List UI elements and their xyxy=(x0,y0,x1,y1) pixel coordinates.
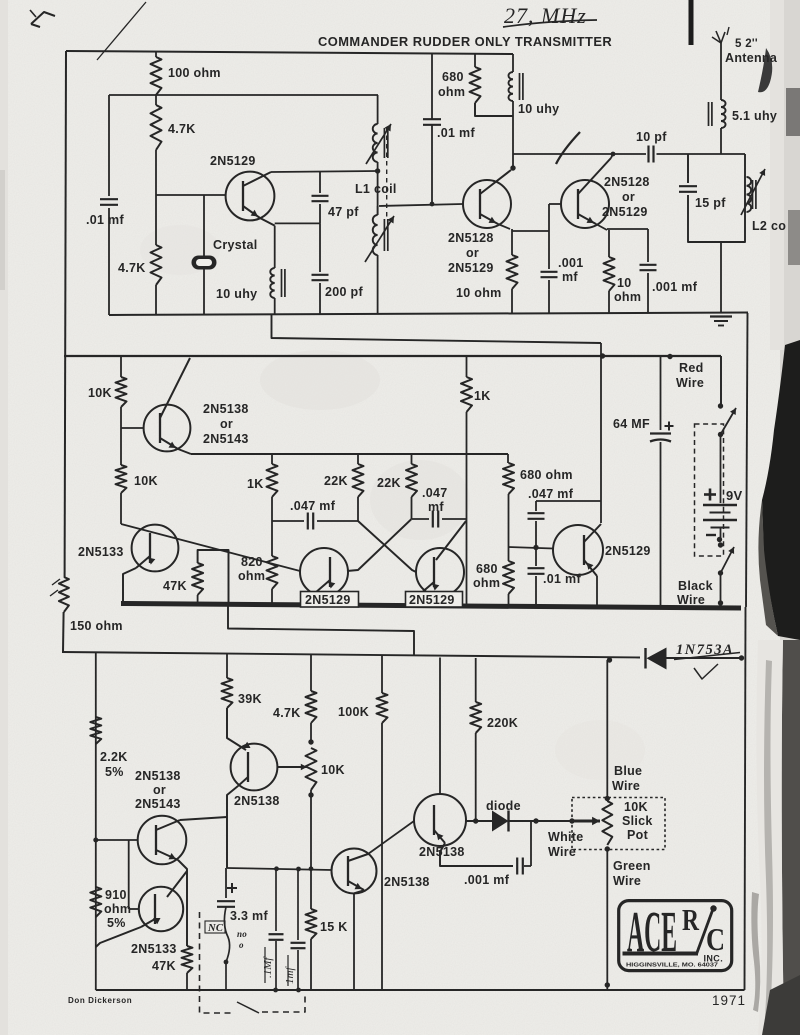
label 15 K xyxy=(320,920,348,934)
wire left page border (lower) xyxy=(62,612,65,652)
node L4-collector junction xyxy=(510,165,515,170)
wire Q3 collector riser xyxy=(611,154,613,158)
svg-text:Wire: Wire xyxy=(612,779,640,793)
svg-text:Wire: Wire xyxy=(676,376,704,390)
wire right multivib column xyxy=(466,454,468,604)
svg-text:Red: Red xyxy=(679,361,704,375)
wire top border xyxy=(66,51,513,54)
resistor R15 1K xyxy=(461,356,472,454)
node rail junction b xyxy=(296,988,301,993)
label Crystal xyxy=(213,238,257,252)
label 10 ohm (R5) xyxy=(456,286,502,300)
svg-text:or: or xyxy=(153,783,166,797)
transistor Q5 2N5133 xyxy=(123,525,178,603)
svg-text:NC: NC xyxy=(207,923,224,934)
logo ACE text xyxy=(627,899,677,964)
resistor R2 4.7K xyxy=(151,95,162,195)
svg-text:1971: 1971 xyxy=(712,993,746,1008)
wire oscillator bottom rail xyxy=(109,313,748,316)
label Blue Wire xyxy=(612,764,642,793)
capacitor C11 .047 mf xyxy=(528,501,545,547)
svg-text:10: 10 xyxy=(617,276,632,290)
svg-text:.1Mf: .1Mf xyxy=(262,956,274,978)
label 52'' Antenna xyxy=(725,38,778,65)
label 1N753A (handwritten) xyxy=(674,642,740,660)
resistor R17 680 ohm xyxy=(503,547,514,606)
label 2N5128 or 2N5129 (Q3) xyxy=(602,175,650,219)
svg-text:100 ohm: 100 ohm xyxy=(168,66,221,80)
svg-text:39K: 39K xyxy=(238,692,262,706)
svg-text:680: 680 xyxy=(476,562,498,576)
svg-text:200 pf: 200 pf xyxy=(325,285,363,299)
label 3.3 mf xyxy=(230,909,268,923)
wire keying transistor riser xyxy=(600,343,602,523)
svg-text:ohm: ohm xyxy=(614,290,641,304)
label .001 mf (C17) xyxy=(464,873,510,887)
resistor R16 680 ohm xyxy=(503,454,514,547)
label .1Mf (rotated handwritten) xyxy=(262,947,274,983)
label White Wire xyxy=(548,830,584,859)
capacitor C17 .001 mf xyxy=(517,821,531,875)
svg-text:1K: 1K xyxy=(247,477,264,491)
svg-text:5.1 uhy: 5.1 uhy xyxy=(732,109,777,123)
label 2N5128 or 2N5129 (Q2) xyxy=(448,231,494,275)
wire trim dashed box xyxy=(200,912,306,1013)
inductor L1b (variable, lower) xyxy=(365,206,394,313)
resistor R24 910 ohm 5% xyxy=(90,887,101,917)
svg-text:.01 mf: .01 mf xyxy=(437,126,475,140)
svg-text:2N5138: 2N5138 xyxy=(203,402,249,416)
label 680 ohm (R4) xyxy=(438,70,465,99)
label .01 mf xyxy=(86,213,124,227)
svg-text:.001: .001 xyxy=(558,256,584,270)
wire left page border (upper) xyxy=(65,51,66,577)
resistor R1 100 ohm xyxy=(151,51,162,95)
wire RF amp base xyxy=(379,204,463,206)
resistor R7 10K xyxy=(116,356,127,428)
label .047 mf (C10) xyxy=(422,486,448,514)
svg-text:2N5128: 2N5128 xyxy=(604,175,650,189)
inductor L5 5.1 uhy xyxy=(709,100,726,154)
capacitor C2 47 pf xyxy=(312,171,329,223)
transistor Q1 2N5129 xyxy=(226,172,275,226)
capacitor C8 15 pf xyxy=(679,186,697,192)
svg-text:2N5138: 2N5138 xyxy=(234,794,280,808)
svg-text:10 uhy: 10 uhy xyxy=(518,102,559,116)
node diode output junction xyxy=(533,818,538,823)
label box 2N5129 (Q6) xyxy=(301,592,359,608)
svg-text:.001 mf: .001 mf xyxy=(464,873,510,887)
wire Q8 base bus xyxy=(509,547,554,549)
label 47 pf xyxy=(328,205,359,219)
svg-text:150 ohm: 150 ohm xyxy=(70,619,123,633)
label NC (handwritten) xyxy=(205,921,225,934)
node base-cap junction xyxy=(533,545,538,550)
svg-text:o: o xyxy=(239,940,244,950)
svg-text:2N5138: 2N5138 xyxy=(384,875,430,889)
resistor R6 10 ohm xyxy=(604,230,615,313)
label 2N5138 (Q9) xyxy=(234,794,280,808)
label 910 ohm 5% xyxy=(104,888,131,930)
label Red Wire xyxy=(676,361,704,390)
node collector-tank junction xyxy=(375,168,380,173)
logo address text xyxy=(626,963,718,969)
label 10 uhy (L3) xyxy=(216,287,257,301)
label 22K (R13) xyxy=(377,476,401,490)
wire Q1 emitter to caps xyxy=(275,222,320,224)
transistor Q6 2N5129 xyxy=(300,548,348,604)
diode D2 xyxy=(492,811,536,832)
label 1mf (rotated handwritten) xyxy=(284,955,296,986)
capacitor C15 1 mf (handwritten) xyxy=(269,866,284,990)
svg-text:2N5143: 2N5143 xyxy=(203,432,249,446)
label 2.2K 5% xyxy=(100,750,128,779)
label minus (BT1) xyxy=(706,534,716,536)
label .01 mf (C4) xyxy=(437,126,475,140)
svg-text:2N5138: 2N5138 xyxy=(135,769,181,783)
svg-text:ohm: ohm xyxy=(473,576,500,590)
label 47K (R25) xyxy=(152,959,176,973)
svg-text:2N5129: 2N5129 xyxy=(210,154,256,168)
label 150 ohm xyxy=(70,619,123,633)
label 2N5129 (Q8) xyxy=(605,544,651,558)
svg-text:10K: 10K xyxy=(624,800,648,814)
pen slash mark (RF stage) xyxy=(556,132,580,164)
label 200 pf xyxy=(325,285,363,299)
svg-text:HIGGINSVILLE, MO. 64037: HIGGINSVILLE, MO. 64037 xyxy=(626,963,718,969)
svg-text:2N5133: 2N5133 xyxy=(78,545,124,559)
label plus (BT1) xyxy=(704,489,716,501)
wire crossover A xyxy=(358,521,416,572)
label 2N5138 (Q12) xyxy=(384,875,430,889)
transistor Q12 2N5138 xyxy=(332,821,415,990)
transistor Q2 2N5128/2N5129 xyxy=(463,170,511,229)
label 10 uhy (L4) xyxy=(518,102,559,116)
wire white wire arrow xyxy=(536,817,600,825)
node pot bottom junction xyxy=(309,866,314,871)
capacitor C1 .01 mf xyxy=(100,199,118,205)
label L2 co xyxy=(752,219,786,233)
potentiometer R22 10K xyxy=(306,739,317,868)
svg-text:10 uhy: 10 uhy xyxy=(216,287,257,301)
resistor R8 10K xyxy=(116,428,127,524)
wire Q4 base xyxy=(121,427,144,429)
transistor Q9 2N5138 xyxy=(227,744,307,868)
resistor R12 22K xyxy=(353,454,364,521)
svg-text:.047: .047 xyxy=(422,486,448,500)
svg-text:5%: 5% xyxy=(107,916,126,930)
svg-text:5 2'': 5 2'' xyxy=(735,38,758,50)
label 10K (R7) xyxy=(88,386,112,400)
svg-text:Green: Green xyxy=(613,859,651,873)
diode D1 1N753A xyxy=(646,648,742,670)
wire step-down link xyxy=(228,606,414,655)
capacitor C16 1 mf (handwritten) xyxy=(291,867,306,990)
switch S1 (red wire) xyxy=(718,403,736,437)
wire Q1 collector xyxy=(271,171,378,172)
resistor R14 150 ohm (in left border) xyxy=(50,577,69,612)
resistor R25 47K xyxy=(182,946,193,990)
svg-text:64 MF: 64 MF xyxy=(613,417,650,431)
label 2N5138 (Q13) xyxy=(419,845,465,859)
svg-text:22K: 22K xyxy=(324,474,348,488)
label 220K xyxy=(487,716,518,730)
transistor Q13 2N5138 xyxy=(414,658,513,867)
label 820 ohm (R11) xyxy=(238,555,265,583)
label 680 ohm (R17) xyxy=(473,562,500,590)
svg-text:.01 mf: .01 mf xyxy=(86,213,124,227)
svg-text:2N5138: 2N5138 xyxy=(419,845,465,859)
transistor Q11 2N5133 xyxy=(96,840,187,947)
label 1971 xyxy=(712,993,746,1008)
svg-text:Don Dickerson: Don Dickerson xyxy=(68,996,132,1005)
svg-text:.001 mf: .001 mf xyxy=(652,280,698,294)
wire middle bottom rail xyxy=(121,604,741,609)
node Q3 collector-rail junction xyxy=(611,152,616,157)
svg-text:47 pf: 47 pf xyxy=(328,205,359,219)
label 10 ohm (R6) xyxy=(614,276,641,304)
svg-text:2N5129: 2N5129 xyxy=(305,593,351,607)
svg-text:2N5129: 2N5129 xyxy=(602,205,648,219)
svg-text:10 ohm: 10 ohm xyxy=(456,286,502,300)
wire crossover B xyxy=(347,519,412,571)
transistor Q7 2N5129 xyxy=(416,521,466,604)
resistor R5 10 ohm xyxy=(507,229,518,313)
label 2N5129 (Q1) xyxy=(210,154,256,168)
svg-text:mf: mf xyxy=(562,270,578,284)
wire battery dashed enclosure xyxy=(695,424,724,556)
transistor Q10 2N5138/2N5143 xyxy=(96,816,227,946)
wire keying collector link xyxy=(536,500,601,502)
node supply-pot junction xyxy=(607,657,612,662)
svg-text:R: R xyxy=(682,902,699,937)
antenna xyxy=(712,27,729,100)
label plus (C13) xyxy=(665,422,674,431)
resistor R4 680 ohm xyxy=(470,54,514,116)
node rail junction a xyxy=(273,988,278,993)
node Q10 base junction xyxy=(93,838,98,843)
resistor R10 1K xyxy=(267,454,278,521)
label 10K Slick Pot xyxy=(622,800,653,842)
transistor Q4 2N5138/2N5143 xyxy=(144,358,191,454)
svg-text:ohm: ohm xyxy=(238,569,265,583)
battery BT1 9V xyxy=(703,505,737,542)
wire bottom rail xyxy=(96,989,745,991)
wire Q2 emitter link xyxy=(512,230,549,232)
label 22K (R12) xyxy=(324,474,348,488)
capacitor C9 .047 mf xyxy=(272,513,358,530)
wire middle supply rail xyxy=(64,355,721,357)
svg-text:1mf: 1mf xyxy=(284,966,296,984)
node pot bottom rail junction xyxy=(605,982,610,987)
transistor Q8 2N5129 xyxy=(553,524,603,606)
wire Q1 base xyxy=(156,194,226,196)
svg-text:4.7K: 4.7K xyxy=(168,122,196,136)
label 10K (R8) xyxy=(134,474,158,488)
wire RF rail xyxy=(513,153,745,155)
svg-text:47K: 47K xyxy=(152,959,176,973)
wire oscillator top rail xyxy=(109,94,378,96)
wire gang dashed link xyxy=(386,127,388,218)
label 2N5138 or 2N5143 (Q4) xyxy=(203,402,249,446)
node rail junction (red wire) xyxy=(667,354,672,359)
wire right page border xyxy=(745,313,748,990)
ground xyxy=(710,317,732,326)
label Black Wire xyxy=(677,579,713,607)
label title xyxy=(318,34,612,49)
wire switch to battery xyxy=(720,435,722,504)
svg-text:C: C xyxy=(706,921,725,957)
svg-text:2N5128: 2N5128 xyxy=(448,231,494,245)
capacitor C7 10 pf xyxy=(649,146,654,163)
svg-text:Slick: Slick xyxy=(622,814,653,828)
wire Q3 base xyxy=(549,204,561,231)
svg-text:2N5129: 2N5129 xyxy=(409,593,455,607)
label 10K (R22) xyxy=(321,763,345,777)
svg-text:47K: 47K xyxy=(163,579,187,593)
wire emitter bus xyxy=(227,868,332,870)
label Don Dickerson xyxy=(68,996,132,1005)
wire step link from oscillator xyxy=(272,315,602,343)
svg-text:22K: 22K xyxy=(377,476,401,490)
transistor Q3 2N5128/2N5129 xyxy=(561,158,611,230)
pen scribble top-left xyxy=(30,10,55,27)
potentiometer R27 10K slick pot xyxy=(602,796,612,852)
label 15 pf xyxy=(695,196,726,210)
label .047 mf (C11) xyxy=(528,487,574,501)
svg-text:820: 820 xyxy=(241,555,263,569)
label 2N5133 (Q5) xyxy=(78,545,124,559)
svg-text:COMMANDER RUDDER ONLY TRANSMIT: COMMANDER RUDDER ONLY TRANSMITTER xyxy=(318,34,612,49)
capacitor C14 3.3 mf (electrolytic) xyxy=(217,868,235,990)
label no (handwritten) xyxy=(237,929,247,950)
label 10 pf xyxy=(636,130,667,144)
label box 2N5129 (Q7) xyxy=(406,592,463,608)
label 100K xyxy=(338,705,369,719)
svg-text:diode: diode xyxy=(486,799,521,813)
node 220K junction xyxy=(473,818,478,823)
label 100 ohm xyxy=(168,66,221,80)
wire bottom-left vertical xyxy=(95,653,97,990)
resistor R11 820 ohm xyxy=(267,521,278,604)
wire 2N5133 base diagonal xyxy=(121,524,300,571)
label 64 MF xyxy=(613,417,650,431)
svg-text:Wire: Wire xyxy=(613,874,641,888)
svg-text:White: White xyxy=(548,830,584,844)
wire pot column xyxy=(606,660,608,990)
label L1 coil xyxy=(355,182,397,196)
svg-text:9V: 9V xyxy=(726,488,743,503)
resistor R18 2.2K 5% xyxy=(90,717,101,744)
label 47K (R9) xyxy=(163,579,187,593)
svg-text:mf: mf xyxy=(428,500,444,514)
label .001 mf (C5) xyxy=(558,256,584,284)
wire antenna tank box xyxy=(688,154,745,242)
label 4.7K xyxy=(168,122,196,136)
svg-text:15 pf: 15 pf xyxy=(695,196,726,210)
svg-text:910: 910 xyxy=(105,888,127,902)
svg-text:4.7K: 4.7K xyxy=(273,706,301,720)
svg-text:2N5133: 2N5133 xyxy=(131,942,177,956)
label check mark xyxy=(694,664,718,679)
svg-text:4.7K: 4.7K xyxy=(118,261,146,275)
inductor L4 10 uhy xyxy=(508,54,522,168)
resistor R23 220K xyxy=(470,658,481,821)
label 9V xyxy=(726,488,743,503)
resistor R19 39K xyxy=(222,654,251,750)
label 1K (R15) xyxy=(474,389,491,403)
wire diode feed xyxy=(466,820,492,822)
svg-text:10K: 10K xyxy=(134,474,158,488)
capacitor C10 .047 mf xyxy=(412,511,467,528)
label .047 mf (C9) xyxy=(290,499,336,513)
svg-text:2N5129: 2N5129 xyxy=(605,544,651,558)
wire battery column top xyxy=(720,356,722,406)
resistor R26 15K xyxy=(306,868,317,990)
svg-text:15 K: 15 K xyxy=(320,920,348,934)
label 4.7K (R20) xyxy=(273,706,301,720)
node base-.01 junction xyxy=(430,202,435,207)
logo ACE R/C box xyxy=(619,901,732,971)
label 39K (R19) xyxy=(238,692,262,706)
label diode xyxy=(486,799,521,813)
label .01 mf (C12) xyxy=(543,572,581,586)
svg-text:Pot: Pot xyxy=(627,828,649,842)
wire supply line (left) xyxy=(62,652,640,658)
resistor R13 22K xyxy=(406,454,417,519)
svg-text:or: or xyxy=(466,246,479,260)
switch S2 (black wire) xyxy=(718,542,734,605)
svg-text:ohm: ohm xyxy=(104,902,131,916)
node supply-right junction xyxy=(739,655,744,660)
resistor R3 4.7K xyxy=(151,195,162,315)
logo underline bar xyxy=(623,952,699,956)
svg-text:Crystal: Crystal xyxy=(213,238,257,252)
capacitor C12 .01 mf xyxy=(528,548,545,607)
svg-text:27, MHz: 27, MHz xyxy=(504,3,587,28)
inductor L1 (variable, upper) xyxy=(366,95,391,206)
inductor L3 10 uhy xyxy=(270,226,285,315)
resistor R21 100K xyxy=(377,655,388,990)
label 4.7K (R3) xyxy=(118,261,146,275)
svg-text:5%: 5% xyxy=(105,765,124,779)
resistor R9 47K xyxy=(192,550,228,604)
svg-text:Antenna: Antenna xyxy=(725,51,778,65)
label 2N5138 or 2N5143 (Q10) xyxy=(135,769,181,811)
label 1K (R10) xyxy=(247,477,264,491)
pen diagonal line xyxy=(97,2,146,60)
capacitor C3 200 pf xyxy=(312,223,329,315)
wire pot slider box (dashed) xyxy=(572,798,665,850)
svg-text:680: 680 xyxy=(442,70,464,84)
capacitor C6 .001 mf xyxy=(607,229,657,313)
label 27 MHz (handwritten) xyxy=(503,3,597,28)
svg-text:Black: Black xyxy=(678,579,713,593)
svg-text:Wire: Wire xyxy=(677,593,705,607)
svg-text:2.2K: 2.2K xyxy=(100,750,128,764)
wire left oscillator branch xyxy=(108,95,110,315)
label 5.1 uhy xyxy=(732,109,777,123)
node step-rail junction xyxy=(600,353,605,358)
label 2N5133 (Q11) xyxy=(131,942,177,956)
svg-text:2N5129: 2N5129 xyxy=(448,261,494,275)
svg-text:100K: 100K xyxy=(338,705,369,719)
svg-text:10K: 10K xyxy=(88,386,112,400)
svg-text:10K: 10K xyxy=(321,763,345,777)
wire multivibrator rail xyxy=(191,453,508,455)
svg-text:10 pf: 10 pf xyxy=(636,130,667,144)
label Green Wire xyxy=(613,859,651,888)
